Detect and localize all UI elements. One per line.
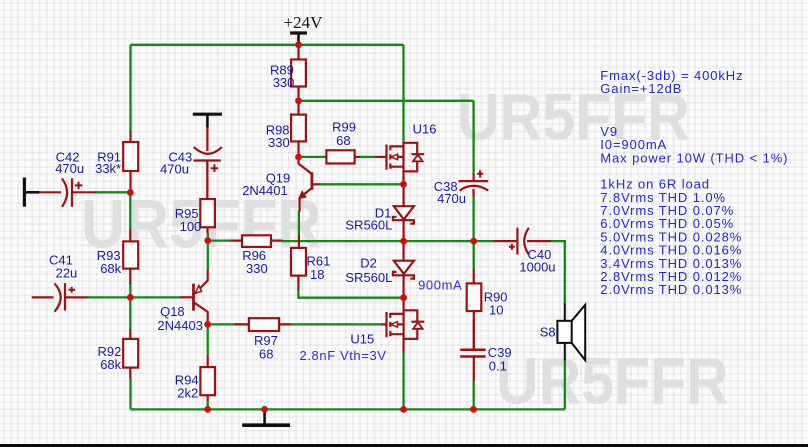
wire C42 right [95, 191, 131, 193]
resistor R91 [123, 131, 138, 193]
wire R94 bottom to rail [207, 400, 209, 409]
watermark UR5FFR bottom right [496, 343, 729, 419]
svg-text:U15: U15 [350, 331, 374, 346]
svg-text:2.0Vrms THD 0.013%: 2.0Vrms THD 0.013% [600, 282, 742, 297]
svg-text:Q18: Q18 [160, 304, 185, 319]
wire trunk C41 node to R92 [129, 297, 131, 329]
svg-text:D2: D2 [360, 255, 377, 270]
transistor Q19 2N4401 [299, 157, 321, 212]
junction node D2/U15d/R61 [400, 294, 407, 301]
svg-text:470u: 470u [437, 191, 466, 206]
svg-text:330: 330 [268, 135, 290, 150]
wire R89-R98 node to C38 column [299, 100, 474, 102]
wire C38 bottom to node [472, 196, 474, 242]
resistor R93 [123, 230, 138, 285]
svg-text:2N4403: 2N4403 [157, 318, 203, 333]
svg-text:100: 100 [180, 219, 202, 234]
svg-text:22u: 22u [56, 266, 78, 281]
terminal port at C43 [193, 114, 222, 127]
wire top rail +24V node [131, 44, 404, 46]
svg-text:33k*: 33k* [95, 161, 121, 176]
junction node rail C39 [470, 406, 477, 413]
resistor R94 [200, 356, 215, 401]
watermark UR5FFR top right [457, 79, 690, 155]
junction node U16s/Q19b/D1 [400, 181, 407, 188]
wire trunk R93 to C41 node [129, 283, 131, 297]
svg-text:2.8nF Vth=3V: 2.8nF Vth=3V [300, 348, 387, 363]
wire C40 to speaker corner [550, 241, 564, 304]
svg-text:68: 68 [259, 347, 273, 362]
wire C38 node down to R90 [473, 241, 475, 270]
junction node +24V rail [295, 41, 302, 48]
svg-text:SR560L: SR560L [345, 270, 392, 285]
svg-text:18: 18 [310, 267, 324, 282]
svg-text:Max power 10W (THD < 1%): Max power 10W (THD < 1%) [600, 150, 788, 165]
junction node rail R94 [204, 406, 211, 413]
svg-text:68: 68 [336, 133, 350, 148]
junction node C42/R91/R93 [127, 189, 134, 196]
diode D1 SR560L [393, 187, 414, 241]
wire speaker bottom to rail [564, 360, 566, 410]
junction node R98/Q19/R99 [295, 154, 302, 161]
svg-text:330: 330 [273, 75, 295, 90]
wire R97 to U15 gate [291, 323, 383, 325]
wire Q18 emitter from R95 node [207, 241, 209, 271]
svg-text:1000u: 1000u [519, 260, 555, 275]
wire C38 column down [472, 101, 474, 175]
resistor R97 horizontal [235, 318, 292, 331]
wire left trunk top to R91 [129, 45, 131, 132]
watermark UR5FFR left middle [81, 185, 322, 263]
wire C41 node to Q18 base [130, 296, 180, 298]
wire R95 bottom [207, 233, 209, 241]
wire C41 right [87, 296, 131, 298]
svg-text:0.1: 0.1 [489, 359, 507, 374]
wire R95 node to R96 [208, 239, 231, 241]
junction node C38/R90/C40 [470, 238, 477, 245]
wire Q19 base to U16 source node [320, 183, 404, 185]
transistor Q18 2N4403 [180, 270, 208, 325]
terminal port at C42 [24, 178, 39, 207]
wire U15 source to rail [402, 352, 404, 409]
capacitor C38 [459, 170, 489, 196]
wire mid rail R61 to D-node to C40 node [282, 240, 495, 242]
speaker S8 [557, 304, 585, 361]
wire R99 left [302, 156, 327, 158]
capacitor C41 [32, 283, 88, 312]
junction node R95/Q18e/R96 [204, 237, 211, 244]
svg-text:68k: 68k [100, 261, 121, 276]
junction node rail U15 [400, 406, 407, 413]
mosfet U16 [375, 142, 424, 182]
svg-text:68k: 68k [100, 357, 121, 372]
resistor R95 [200, 161, 215, 234]
capacitor C40 [494, 228, 552, 255]
bottom black bar [0, 444, 808, 447]
resistor R96 horizontal [231, 235, 283, 247]
wire Q19 emitter down [298, 211, 300, 236]
wire bottom rail [131, 408, 565, 410]
wire R61 bottom corner to D2 node [298, 290, 403, 298]
svg-text:2N4401: 2N4401 [242, 183, 288, 198]
junction node rail ground [261, 406, 268, 413]
junction node D1/D2 output [400, 238, 407, 245]
svg-text:2k2: 2k2 [177, 386, 198, 401]
svg-text:330: 330 [246, 261, 268, 276]
wire Q18 collector node to R97 [208, 323, 242, 325]
svg-text:470u: 470u [55, 161, 84, 176]
wire trunk C42 node to R93 [129, 193, 131, 231]
resistor R61 [291, 235, 306, 290]
diode D2 SR560L [393, 241, 414, 298]
junction node Q18c/R97/R94 [204, 321, 211, 328]
svg-text:Gain=+12dB: Gain=+12dB [600, 81, 682, 96]
resistor R92 [123, 329, 138, 379]
resistor R98 [291, 101, 306, 157]
capacitor C43 [194, 128, 222, 199]
resistor R90 [467, 270, 482, 350]
svg-text:SR560L: SR560L [345, 218, 392, 233]
resistor R89 [291, 45, 306, 101]
svg-text:900mA: 900mA [418, 278, 462, 293]
wire right vertical to U16 drain [402, 45, 404, 143]
svg-text:10: 10 [489, 303, 503, 318]
svg-text:+24V: +24V [284, 13, 324, 32]
wire C39 bottom to rail [473, 380, 475, 409]
junction node R89/R98 [295, 97, 302, 104]
mosfet U15 [382, 300, 425, 353]
svg-text:S8: S8 [540, 324, 556, 339]
wire R99 right to U16 gate [360, 156, 376, 158]
svg-text:470u: 470u [160, 162, 189, 177]
terminal +24V port [290, 33, 307, 45]
ground [242, 409, 290, 425]
junction node C41/R93/R92 [127, 294, 134, 301]
wire Q18 collector node down to R94 [207, 324, 209, 356]
capacitor C42 [39, 178, 95, 207]
capacitor C39 [460, 320, 485, 381]
resistor R99 horizontal [326, 150, 360, 163]
wire trunk R92 to bottom rail [129, 378, 131, 409]
svg-text:U16: U16 [413, 121, 437, 136]
